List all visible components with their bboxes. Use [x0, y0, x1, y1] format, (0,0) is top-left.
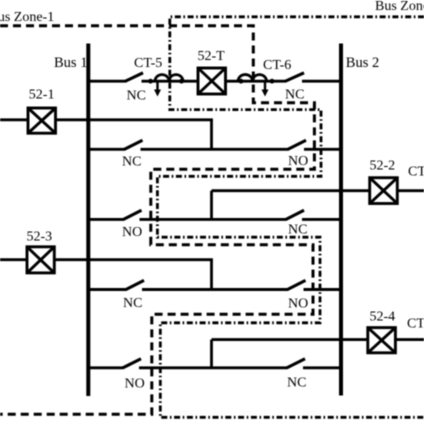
wire aux row 2 to Bus 2	[302, 218, 340, 221]
svg-text:52-1: 52-1	[29, 88, 55, 103]
svg-text:CT-6: CT-6	[263, 58, 291, 73]
wire aux row 4 from Bus 1	[88, 366, 123, 369]
wire feeder 4 right stub	[395, 338, 424, 341]
wire feeder 1 left stub	[0, 118, 29, 121]
breaker 52-1 box	[28, 108, 56, 133]
wire feeder 3 left stub	[0, 258, 28, 261]
svg-text:Bus 2: Bus 2	[346, 55, 379, 71]
svg-text:CT-4: CT-4	[407, 317, 424, 332]
switch blade aux1 left NC	[124, 140, 143, 149]
switch blade aux3 right NO	[287, 280, 306, 289]
zone boundary Bus Zone-1 (dashed polyline)	[0, 26, 314, 415]
svg-text:NC: NC	[122, 155, 141, 170]
wire aux row 1 middle	[141, 148, 289, 151]
wire aux row 2 from Bus 1	[88, 218, 124, 221]
svg-text:52-3: 52-3	[27, 230, 53, 245]
CT CT-5 terminal dot right	[179, 79, 184, 84]
svg-text:NC: NC	[285, 88, 304, 103]
svg-text:NO: NO	[288, 297, 308, 312]
svg-text:CT-5: CT-5	[134, 56, 162, 71]
wire feeder 1 to junction	[56, 118, 213, 121]
bus Bus 2	[339, 44, 343, 396]
wire feeder 4 drop	[210, 340, 213, 368]
wire tie right to Bus 2	[302, 80, 340, 83]
svg-text:CT-2: CT-2	[408, 165, 424, 180]
wire aux row 4 middle	[139, 366, 287, 369]
switch blade aux2 left NO	[123, 210, 142, 219]
svg-text:NC: NC	[127, 89, 146, 104]
wire aux row 3 middle	[142, 288, 288, 291]
switch blade aux2 right NC	[286, 210, 305, 219]
svg-text:NO: NO	[288, 154, 308, 169]
svg-text:52-4: 52-4	[370, 310, 396, 325]
wire feeder 2 drop	[210, 191, 213, 220]
svg-text:Bus Zone-2: Bus Zone-2	[375, 0, 424, 14]
CT CT-5 winding bumps	[155, 75, 183, 82]
wire aux row 1 from Bus 1	[88, 148, 125, 151]
switch blade tie left (NC)	[125, 73, 143, 82]
wire aux row 1 to Bus 2	[304, 148, 340, 151]
CT CT-5 terminal dot left	[148, 79, 153, 84]
CT CT-6 arrow down	[264, 82, 266, 91]
svg-text:NC: NC	[123, 296, 142, 311]
wire feeder 3 to junction	[54, 258, 213, 261]
wire aux row 3 from Bus 1	[88, 288, 126, 291]
wire feeder 1 drop	[210, 120, 213, 150]
switch blade aux3 left NC	[126, 280, 145, 289]
wire feeder 2 right stub	[397, 189, 424, 192]
CT CT-6 terminal dot right	[270, 79, 275, 84]
svg-text:Bus Zone-1: Bus Zone-1	[0, 10, 54, 25]
CT CT-6 winding bumps	[238, 75, 267, 82]
svg-text:52-2: 52-2	[370, 159, 396, 174]
wire aux row 4 to Bus 2	[303, 366, 340, 369]
wire feeder 4 to junction	[212, 338, 368, 341]
svg-text:52-T: 52-T	[198, 49, 226, 64]
wire tie middle-right	[226, 80, 286, 83]
svg-text:NC: NC	[288, 223, 307, 238]
breaker 52-4 box	[368, 328, 396, 353]
wire feeder 2 to junction	[212, 189, 370, 192]
svg-text:NC: NC	[287, 376, 306, 391]
wire aux row 2 middle	[140, 218, 287, 221]
svg-text:NO: NO	[125, 377, 145, 392]
breaker 52-3 box	[27, 247, 54, 273]
svg-text:Bus 1: Bus 1	[54, 55, 87, 71]
wire tie bus segment left	[88, 80, 126, 83]
breaker 52-T box	[198, 68, 226, 94]
wire feeder 3 drop	[210, 260, 213, 290]
wire tie middle-left	[142, 80, 199, 83]
switch blade aux4 right NC	[287, 359, 306, 368]
bus Bus 1	[86, 44, 90, 397]
switch blade aux1 right NO	[288, 140, 307, 149]
CT CT-6 terminal dot left	[239, 79, 244, 84]
zone boundary Bus Zone-2 (dash-dot polyline)	[157, 17, 424, 418]
breaker 52-2 box	[370, 178, 398, 204]
switch blade aux4 left NO	[123, 359, 142, 368]
switch blade tie right (NC)	[285, 73, 304, 82]
wire aux row 3 to Bus 2	[304, 288, 340, 291]
CT CT-5 arrow down	[156, 82, 158, 91]
svg-text:NO: NO	[122, 225, 142, 240]
